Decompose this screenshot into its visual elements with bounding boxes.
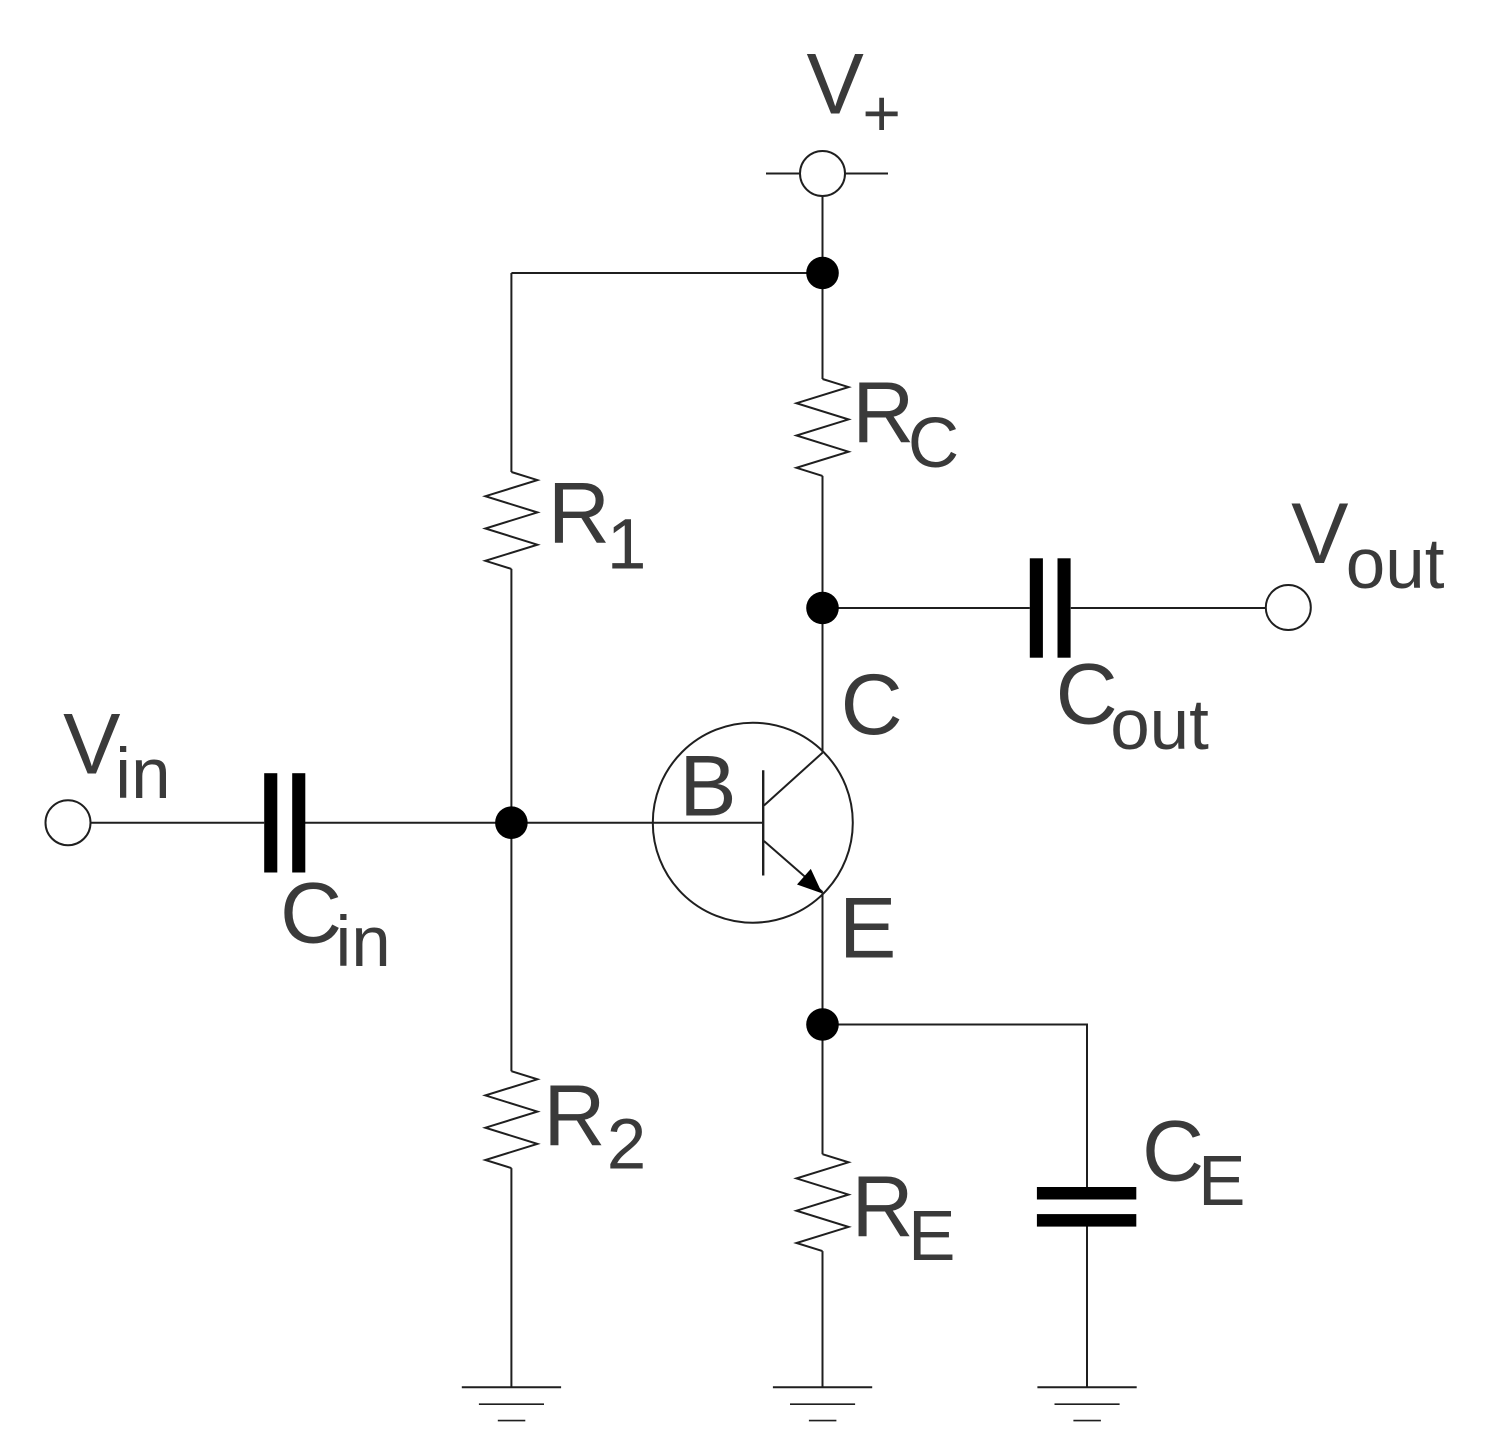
svg-text:in: in [115,735,170,814]
wire base node to transistor base [511,822,763,824]
wire R1 bottom to base node [510,569,512,823]
transistor emitter stroke [764,841,823,892]
wire V+ to node1 [822,196,824,273]
resistor RE [797,1154,849,1251]
svg-text:C: C [1056,647,1118,743]
svg-text:C: C [908,404,959,483]
wire emitter to emitter node [822,892,824,1024]
svg-text:C: C [1142,1104,1204,1200]
svg-text:out: out [1110,686,1209,765]
svg-text:E: E [839,880,896,976]
node dot top (V+ rail) [806,257,839,290]
wire RC bottom to collector node [822,476,824,608]
terminal Vin [46,800,91,845]
svg-text:out: out [1346,525,1445,604]
wire emitter node to RE top [822,1025,824,1155]
svg-text:C: C [280,866,342,962]
capacitor Cin plates [264,773,305,872]
ground (CE) [1037,1387,1136,1420]
transistor base bar [762,770,764,875]
svg-text:2: 2 [607,1105,647,1184]
wire R2 bottom to ground [510,1168,512,1387]
node dot emitter [806,1008,839,1041]
svg-text:V: V [807,36,864,132]
wire collector node to transistor [822,608,824,753]
wire R1 top lead [510,273,512,472]
svg-text:R: R [852,365,914,461]
svg-text:E: E [1198,1142,1245,1221]
wire base node to R2 top [510,823,512,1071]
transistor emitter arrow [797,869,822,894]
wire RE bottom to ground [822,1251,824,1387]
svg-text:E: E [908,1197,955,1276]
svg-text:in: in [336,903,391,982]
capacitor Cout plates [1030,558,1071,657]
svg-text:R: R [548,466,610,562]
transistor collector stroke [764,753,823,806]
svg-text:R: R [543,1068,605,1164]
wire Cout to Vout terminal [1071,607,1266,609]
svg-text:R: R [852,1159,914,1255]
terminal V+ [766,151,888,196]
svg-text:B: B [679,739,736,835]
transistor Q1 body [653,723,853,923]
wire node1 to RC top [822,273,824,379]
node dot base [495,806,528,839]
terminal Vout [1266,585,1311,630]
wire collector node to Cout [823,607,1030,609]
ground (R2) [462,1387,561,1420]
svg-text:+: + [862,76,901,150]
resistor RC [797,379,849,476]
capacitor CE plates [1037,1187,1136,1227]
resistor R1 [485,472,537,569]
wire emitter node to CE [823,1025,1088,1188]
wire Cin to base node [305,822,511,824]
svg-text:1: 1 [607,506,647,585]
ground (RE) [773,1387,872,1420]
wire node1 to R1 top [511,272,822,274]
svg-text:C: C [841,657,903,753]
resistor R2 [485,1071,537,1168]
svg-text:V: V [63,696,120,792]
wire CE bottom to ground [1086,1227,1088,1388]
svg-text:V: V [1291,486,1348,582]
wire Vin to Cin [91,822,265,824]
node dot collector [806,592,839,625]
